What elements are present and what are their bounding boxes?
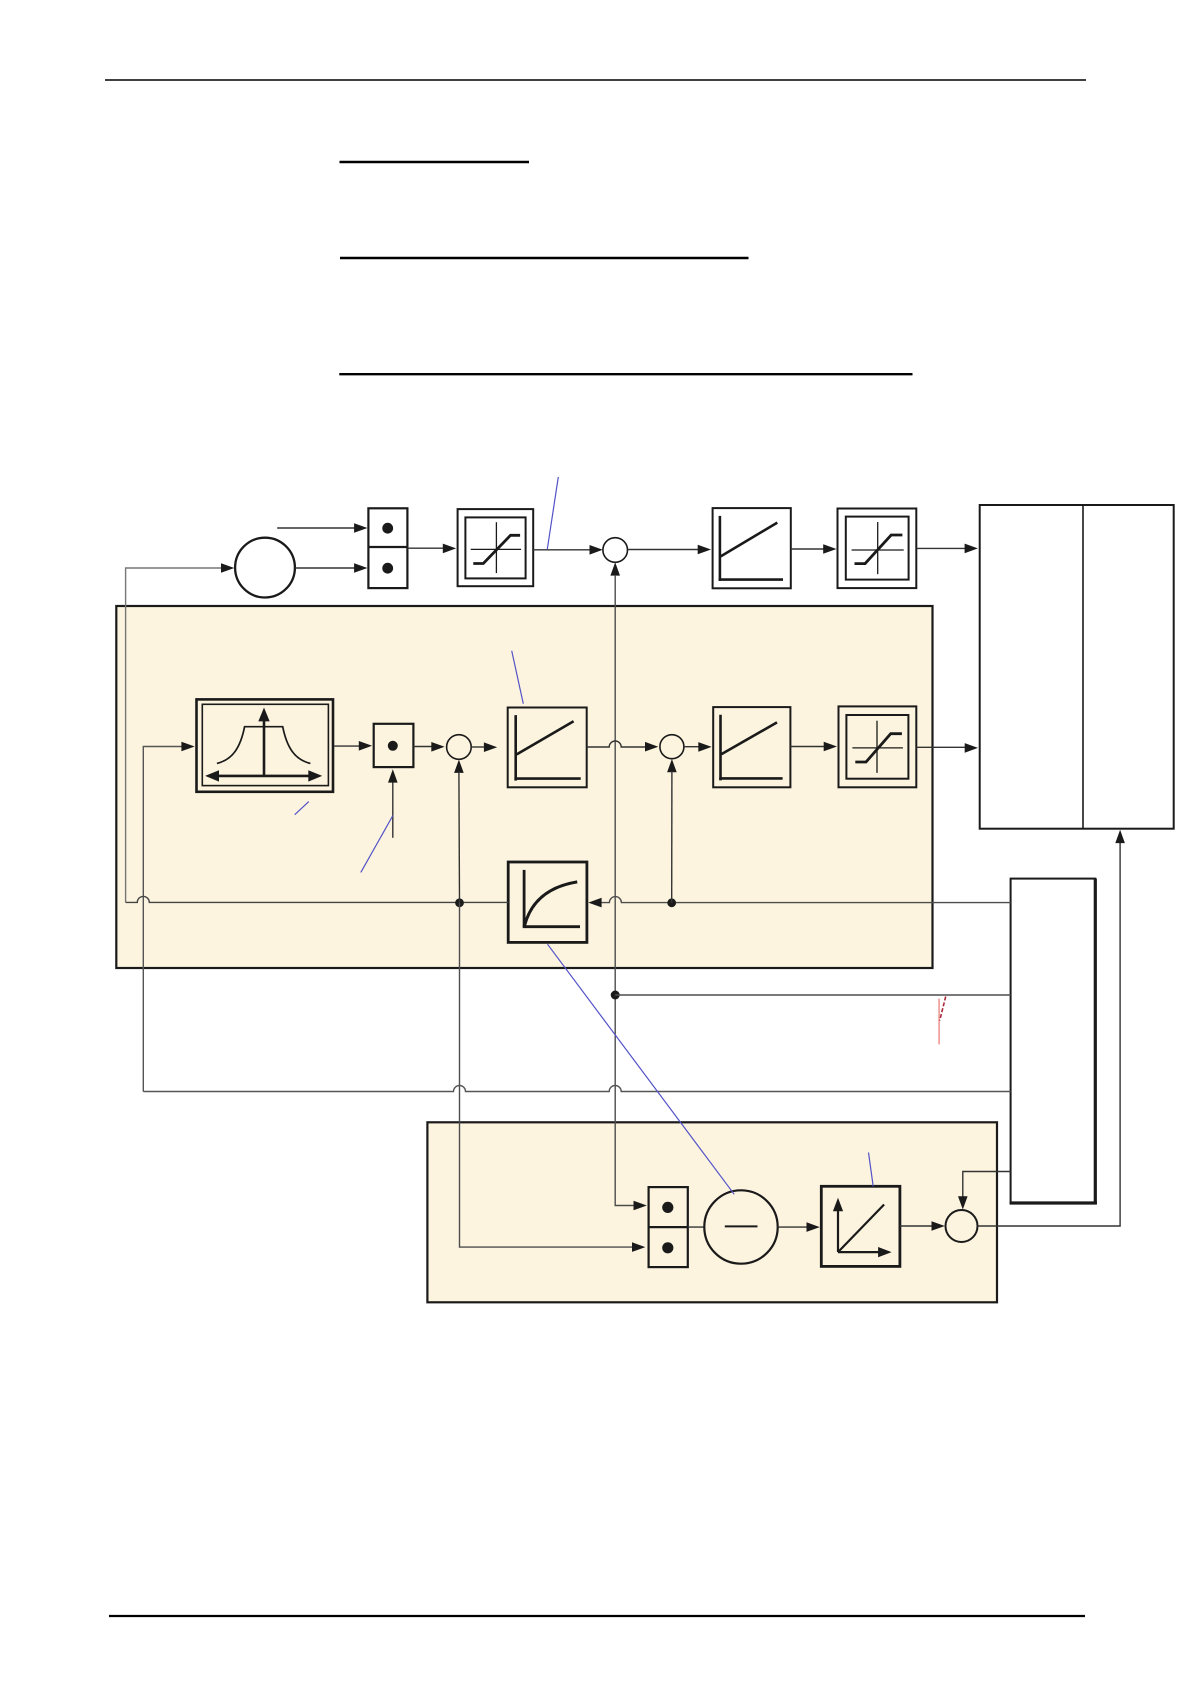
shaded region 2 (cream) xyxy=(427,1122,997,1302)
wire feedback left riser into summer xyxy=(126,568,232,902)
arrow left into E1 xyxy=(588,898,601,908)
wire C4 to gain G3 xyxy=(778,1226,808,1228)
wire junction to tall box (y995) xyxy=(615,994,1010,996)
arrow into limiter L2 xyxy=(823,544,836,554)
arrow down into C5 xyxy=(958,1196,968,1209)
G4 vertical axis xyxy=(719,715,722,781)
multiplier B1 dot bottom xyxy=(382,563,393,574)
arrow up into M1 xyxy=(388,769,398,782)
limiter L2 horizontal axis xyxy=(852,549,904,551)
arrow up into big box bottom xyxy=(1115,830,1125,843)
wire tall box to C5 (down) xyxy=(963,1172,1011,1198)
big output box (two columns) xyxy=(980,505,1174,829)
arrow into summer C3 xyxy=(431,742,444,752)
arrow up into C3 from below xyxy=(454,760,464,773)
wire L2 to big box xyxy=(916,547,966,549)
arrow into G4 xyxy=(698,742,711,752)
footer rule xyxy=(109,1615,1085,1617)
blue slash below D1 xyxy=(295,802,309,815)
arrow up into C2 from below xyxy=(610,562,620,575)
G2 diagonal xyxy=(517,721,574,754)
blue annotation line top row xyxy=(547,477,558,549)
wire C3 to gain G2 xyxy=(471,746,485,748)
wire C2 to gain G1 xyxy=(628,549,700,551)
arrow into multiplier bottom cell xyxy=(354,563,367,573)
arrow into limiter L1 xyxy=(443,544,456,554)
blue annotation line above G2 xyxy=(512,651,524,704)
dead-band D1 inner box xyxy=(202,704,328,785)
B2 dot top xyxy=(662,1202,673,1213)
arrow into dead-band D1 xyxy=(181,742,194,752)
G4 diagonal xyxy=(721,722,777,754)
riser from feedback junction up to C3 xyxy=(458,772,461,903)
summer C6 xyxy=(660,735,684,759)
wire G4 to limiter L3 xyxy=(790,746,824,748)
B2 divider xyxy=(649,1226,688,1228)
limiter L2 saturation curve xyxy=(855,535,903,564)
E1 horizontal axis xyxy=(523,925,580,928)
wire up into M1 from below xyxy=(392,780,394,838)
limiter L3 outer box xyxy=(839,706,917,787)
drop from feedback junction down to B2 bottom cell xyxy=(460,903,634,1247)
arrow into G3 xyxy=(807,1222,820,1232)
washout block E1 xyxy=(508,862,587,942)
heading underline 2 xyxy=(340,257,749,259)
gain block G1 xyxy=(713,508,791,588)
arrow into small summer C2 xyxy=(590,545,603,555)
arrow into C6 xyxy=(645,742,658,752)
big box divider xyxy=(1082,505,1084,829)
wire G1 to limiter L2 xyxy=(791,548,824,550)
limiter L1 saturation curve xyxy=(473,535,520,563)
limiter L2 inner box xyxy=(846,517,909,580)
G2 horizontal axis xyxy=(514,777,580,780)
dead-band block D1 outer box xyxy=(197,699,334,791)
wire C5 right and up into big box bottom xyxy=(978,841,1121,1226)
E1 vertical axis xyxy=(523,870,526,927)
G1 vertical axis xyxy=(719,516,722,581)
feedback wire right of E1 (tall box to E1, hop at C2 net, junction at C6 riser) xyxy=(601,897,1011,903)
blue annotation line below M1 xyxy=(361,816,393,873)
arrow into big box lower input xyxy=(965,743,978,753)
arrow up into C6 from below xyxy=(667,759,677,772)
riser from feedback junction up to C6 xyxy=(671,771,673,903)
wire C1 to multiplier bottom cell xyxy=(295,567,355,569)
L3 saturation curve xyxy=(855,734,902,762)
multiplier box B2 xyxy=(649,1187,688,1267)
limiter L1 vertical axis xyxy=(495,522,497,573)
B2 dot bottom xyxy=(662,1242,673,1253)
wire B1 to limiter L1 xyxy=(407,547,444,549)
G3 vertical arrow axis xyxy=(837,1206,839,1252)
junction dot on feedback at C3 riser xyxy=(455,898,464,907)
G4 horizontal axis xyxy=(719,777,782,780)
red annotation vertical (pink) xyxy=(938,999,940,1045)
arrow into B2 top cell xyxy=(634,1201,647,1211)
wire L1 to small summer C2 xyxy=(533,549,590,551)
junction dot on feedback at C6 riser xyxy=(667,898,676,907)
limiter L2 outer box xyxy=(838,509,917,589)
D1 horizontal double arrow axis xyxy=(209,775,318,778)
E1 exponential curve xyxy=(525,882,578,926)
heading underline 1 xyxy=(340,161,530,163)
D1 vertical arrow axis xyxy=(263,716,266,776)
L3 horizontal axis xyxy=(852,747,903,749)
wire G2 to C6 with hop over C2 net xyxy=(587,741,646,747)
G2 vertical axis xyxy=(514,715,517,781)
gain block G3 xyxy=(821,1186,900,1266)
difference circle C4 xyxy=(704,1190,777,1263)
arrow into gain G1 xyxy=(698,545,711,555)
arrow into B2 bottom cell xyxy=(632,1242,645,1252)
G3 horizontal arrow axis xyxy=(838,1251,883,1253)
multiplier B1 divider xyxy=(368,546,407,548)
arrow into big box top input xyxy=(965,544,978,554)
M1 dot xyxy=(388,741,398,751)
heading underline 3 xyxy=(339,373,912,375)
wire riser into dead-band block D1 xyxy=(143,747,183,1092)
arrow into M1 xyxy=(359,741,372,751)
small summer C2 xyxy=(603,538,628,563)
long blue annotation line E1 to C4 xyxy=(548,944,735,1194)
multiplier B1 dot top xyxy=(382,523,393,534)
header rule xyxy=(105,79,1086,81)
wire L3 to big box xyxy=(916,746,966,748)
long feed wire y1091.5 from tall box with hops xyxy=(143,1086,1010,1092)
summer C3 xyxy=(447,735,472,760)
red annotation diagonal (dark red) xyxy=(940,997,946,1021)
wire G3 to C5 xyxy=(900,1225,933,1227)
D1 plateau curve xyxy=(217,727,311,764)
arrow into summer C1 xyxy=(221,563,234,573)
limiter L1 outer box xyxy=(458,509,534,586)
C4 minus sign xyxy=(725,1225,758,1227)
wire D1 to dot box M1 xyxy=(334,745,360,747)
L3 vertical axis xyxy=(876,721,878,773)
tall box right xyxy=(1011,879,1096,1203)
arrow into multiplier top cell xyxy=(354,523,367,533)
blue annotation line above G3 xyxy=(869,1153,874,1187)
arrow C3 to G2 xyxy=(484,742,497,752)
limiter L3 inner box xyxy=(846,715,908,779)
limiter L1 inner box xyxy=(465,517,525,578)
tall box thick bottom edge xyxy=(1010,1201,1097,1204)
feedback wire left of E1 with hop at D1 riser xyxy=(126,896,509,902)
wire B2 to difference circle C4 xyxy=(688,1226,704,1228)
vertical net from C2 down to lower multiplier (with junction at 995) xyxy=(615,575,644,1206)
G3 diagonal xyxy=(838,1205,884,1253)
limiter L1 horizontal axis xyxy=(471,548,521,550)
arrow into C5 xyxy=(932,1221,945,1231)
wire M1 to summer C3 xyxy=(413,746,432,748)
limiter L2 vertical axis xyxy=(877,522,879,574)
multiplier box B1 xyxy=(368,508,407,588)
G1 diagonal xyxy=(721,523,778,557)
summer C5 xyxy=(946,1210,978,1242)
gain block G4 xyxy=(713,707,790,787)
wire into multiplier top cell xyxy=(277,527,355,529)
dot box M1 xyxy=(374,724,414,767)
summing circle C1 xyxy=(235,538,295,598)
shaded region 1 (cream) xyxy=(116,606,932,968)
arrow into L3 xyxy=(824,742,837,752)
G1 horizontal axis xyxy=(719,578,783,581)
gain block G2 xyxy=(508,708,587,788)
junction dot on C2 net at y995 xyxy=(611,991,620,1000)
tall box thick right edge xyxy=(1094,879,1097,1204)
wire C6 to gain G4 xyxy=(684,746,699,748)
